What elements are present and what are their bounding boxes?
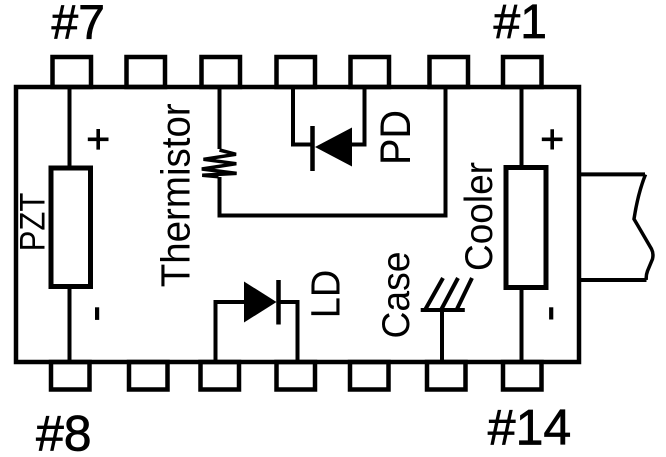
wire pin5 to thermistor — [218, 87, 222, 149]
pin 2 — [430, 57, 469, 87]
pin 14 (bottom row, rightmost) — [503, 362, 542, 390]
laser diode LD cathode bar — [276, 280, 281, 325]
svg-text:#14: #14 — [488, 400, 571, 456]
pin 1 (top row, rightmost) — [503, 57, 542, 87]
wire cooler bottom to pin14 — [520, 285, 524, 363]
svg-text:#8: #8 — [36, 406, 92, 457]
fiber pigtail top line — [579, 172, 645, 176]
wire PZT bottom to pin8 — [68, 284, 72, 364]
pin 11 — [277, 362, 316, 390]
package body U1 — [16, 87, 579, 362]
wire pin1 to cooler top — [520, 87, 524, 170]
wire pin2 branch vertical — [444, 87, 448, 218]
pin 8 (bottom row, leftmost) — [51, 362, 90, 390]
pin 4 — [277, 57, 316, 87]
fiber break squiggle — [634, 175, 653, 281]
wire pin7 to PZT top — [68, 87, 72, 170]
piezo element PZT — [51, 168, 91, 287]
pin 9 — [129, 362, 168, 390]
case chassis hatch 2 — [441, 278, 458, 310]
photodiode PD cathode bar — [310, 126, 315, 171]
svg-text:Cooler: Cooler — [458, 162, 501, 271]
svg-text:LD: LD — [303, 270, 349, 319]
case chassis symbol bar — [421, 308, 465, 312]
svg-text:#7: #7 — [52, 0, 105, 50]
wire LD cathode to pin11 — [279, 302, 298, 363]
pin 7 (top row, leftmost) — [53, 57, 92, 87]
wire thermistor net horizontal to pin2 branch — [218, 214, 448, 218]
case chassis hatch 3 — [457, 278, 473, 310]
PZT minus polarity mark — [95, 307, 99, 320]
photodiode PD triangle — [315, 128, 352, 167]
wire thermistor bottom — [218, 177, 222, 218]
thermoelectric cooler element — [506, 168, 546, 288]
wire PD anode to pin3 — [352, 85, 365, 145]
svg-text:Case: Case — [375, 252, 418, 339]
pin 5 — [202, 57, 241, 87]
pin 10 — [201, 362, 240, 390]
cooler plus polarity mark — [542, 129, 563, 149]
cooler minus polarity mark — [549, 307, 553, 319]
pin 3 — [351, 57, 390, 87]
wire case to pin13 — [440, 308, 444, 363]
svg-text:Thermistor: Thermistor — [153, 103, 199, 287]
pin 6 — [127, 57, 166, 87]
pin 12 — [350, 362, 389, 390]
thermistor RT1 zigzag — [202, 150, 237, 177]
wire pin10 to LD anode — [216, 302, 246, 363]
svg-text:PD: PD — [372, 110, 420, 165]
svg-text:#1: #1 — [494, 0, 547, 49]
wire pin4 to PD cathode — [293, 85, 312, 145]
fiber pigtail bottom line — [579, 278, 647, 282]
case chassis hatch 1 — [425, 278, 443, 310]
pin 13 — [427, 362, 466, 390]
laser diode LD triangle — [244, 282, 277, 323]
PZT plus polarity mark — [88, 129, 109, 150]
svg-text:PZT: PZT — [13, 193, 53, 252]
